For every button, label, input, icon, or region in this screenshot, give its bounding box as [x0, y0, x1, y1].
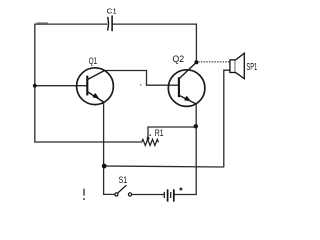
svg-text:S1: S1 — [119, 175, 128, 185]
svg-text:Q1: Q1 — [89, 56, 98, 66]
svg-text:SP1: SP1 — [246, 62, 257, 73]
svg-text:C1: C1 — [107, 9, 117, 16]
svg-text:R1: R1 — [155, 128, 164, 138]
svg-text:Q2: Q2 — [172, 54, 184, 64]
